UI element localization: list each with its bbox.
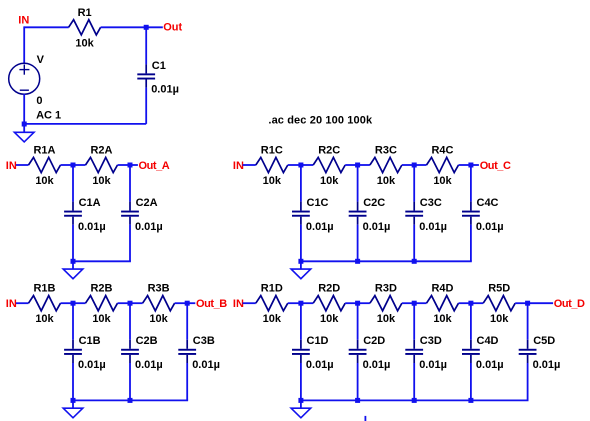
junction	[185, 301, 190, 306]
junction	[412, 398, 417, 403]
wire C1D bottom lead	[300, 363, 302, 400]
wire C4C top lead	[470, 165, 472, 202]
wire C4D bottom lead	[470, 363, 472, 400]
svg-text:AC 1: AC 1	[36, 109, 61, 121]
svg-text:0.01µ: 0.01µ	[78, 221, 106, 233]
svg-text:Out: Out	[163, 22, 182, 34]
wire C2C bottom lead	[357, 225, 359, 261]
svg-text:R4C: R4C	[431, 145, 453, 157]
svg-text:0.01µ: 0.01µ	[135, 359, 163, 371]
wire C1D top lead	[300, 303, 302, 340]
svg-text:R2C: R2C	[318, 145, 340, 157]
wire	[118, 302, 131, 304]
capacitor C2D	[349, 340, 367, 363]
wire C1 top lead	[145, 27, 147, 64]
svg-text:10k: 10k	[490, 313, 509, 325]
svg-text:0.01µ: 0.01µ	[363, 221, 391, 233]
wire	[345, 302, 357, 304]
svg-text:10k: 10k	[433, 175, 452, 187]
wire	[301, 302, 313, 304]
svg-text:10k: 10k	[35, 313, 54, 325]
resistor R2B	[86, 296, 118, 311]
capacitor C1B	[64, 340, 82, 363]
svg-text:0.01µ: 0.01µ	[151, 84, 179, 96]
wire C1B bottom lead	[72, 363, 74, 400]
capacitor C4D	[462, 340, 480, 363]
ground top circuit	[14, 132, 34, 142]
svg-text:V: V	[37, 54, 45, 66]
junction	[355, 398, 360, 403]
wire	[175, 302, 188, 304]
wire	[358, 164, 370, 166]
svg-text:0.01µ: 0.01µ	[533, 359, 561, 371]
resistor R1C	[256, 157, 288, 172]
resistor R2A	[86, 157, 118, 172]
svg-text:R1D: R1D	[261, 283, 283, 295]
wire	[24, 26, 68, 28]
junction node Out	[144, 25, 149, 30]
junction	[298, 163, 303, 168]
capacitor C1A	[64, 202, 82, 225]
svg-text:C1B: C1B	[79, 335, 101, 347]
svg-text:C5D: C5D	[533, 335, 555, 347]
resistor R5D	[483, 296, 515, 311]
junction	[412, 259, 417, 264]
junction	[468, 163, 473, 168]
voltage source V1	[9, 63, 40, 94]
wire bottom rail (top circuit)	[24, 123, 146, 125]
wire C2B top lead	[129, 303, 131, 340]
wire C1A bottom lead	[72, 225, 74, 261]
resistor R1A	[29, 157, 61, 172]
wire	[101, 26, 163, 28]
capacitor C2B	[121, 340, 139, 363]
capacitor C1D	[292, 340, 310, 363]
wire	[402, 302, 414, 304]
svg-text:10k: 10k	[377, 175, 396, 187]
junction	[128, 163, 133, 168]
svg-text:0.01µ: 0.01µ	[419, 221, 447, 233]
junction	[128, 301, 133, 306]
svg-text:IN: IN	[6, 160, 17, 172]
svg-text:0.01µ: 0.01µ	[476, 221, 504, 233]
resistor R2D	[313, 296, 345, 311]
resistor R4D	[427, 296, 459, 311]
wire	[471, 302, 483, 304]
wire C3C top lead	[413, 165, 415, 202]
wire C2D top lead	[357, 303, 359, 340]
wire ground rail	[300, 260, 472, 262]
svg-text:C3D: C3D	[420, 335, 442, 347]
wire	[23, 26, 25, 63]
junction	[525, 301, 530, 306]
capacitor C1	[137, 64, 155, 87]
junction	[468, 398, 473, 403]
wire stub (stray mark)	[364, 416, 366, 421]
svg-text:R1A: R1A	[33, 145, 55, 157]
svg-text:0.01µ: 0.01µ	[78, 359, 106, 371]
svg-text:C2B: C2B	[136, 335, 158, 347]
svg-text:10k: 10k	[75, 37, 94, 49]
wire	[243, 164, 256, 166]
svg-text:10k: 10k	[92, 175, 111, 187]
svg-text:C3C: C3C	[420, 197, 442, 209]
svg-text:IN: IN	[233, 298, 244, 310]
resistor R3C	[370, 157, 402, 172]
svg-text:C1D: C1D	[307, 335, 329, 347]
wire ground stub	[72, 400, 74, 408]
resistor R1	[69, 20, 101, 35]
svg-text:.ac dec 20 100 100k: .ac dec 20 100 100k	[268, 114, 373, 126]
svg-text:R5D: R5D	[488, 283, 510, 295]
svg-text:C2A: C2A	[136, 197, 158, 209]
wire	[414, 164, 426, 166]
wire C3B top lead	[186, 303, 188, 340]
junction	[355, 301, 360, 306]
wire	[16, 302, 29, 304]
wire ground rail	[72, 399, 188, 401]
junction	[128, 398, 133, 403]
wire	[528, 302, 554, 304]
svg-text:10k: 10k	[263, 313, 282, 325]
wire C3D top lead	[413, 303, 415, 340]
junction	[355, 259, 360, 264]
wire	[515, 302, 527, 304]
wire C1A top lead	[72, 165, 74, 202]
wire C1C bottom lead	[300, 225, 302, 261]
wire ground stub	[300, 400, 302, 408]
junction	[71, 301, 76, 306]
junction ground node	[22, 122, 27, 127]
wire C4C bottom lead	[470, 225, 472, 261]
svg-text:0.01µ: 0.01µ	[476, 359, 504, 371]
wire	[459, 302, 471, 304]
svg-text:Out_C: Out_C	[480, 160, 511, 172]
svg-text:0.01µ: 0.01µ	[306, 221, 334, 233]
svg-text:Out_B: Out_B	[196, 298, 227, 310]
junction	[71, 163, 76, 168]
wire C1 bottom lead	[145, 88, 147, 124]
junction	[298, 398, 303, 403]
wire	[61, 302, 74, 304]
wire C1C top lead	[300, 165, 302, 202]
wire ground rail	[300, 399, 529, 401]
wire C3D bottom lead	[413, 363, 415, 400]
svg-text:R2A: R2A	[90, 145, 112, 157]
ground section B	[63, 408, 83, 418]
capacitor C3D	[405, 340, 423, 363]
svg-text:C1: C1	[152, 60, 166, 72]
svg-text:10k: 10k	[320, 313, 339, 325]
svg-text:C1A: C1A	[79, 197, 101, 209]
capacitor C2A	[121, 202, 139, 225]
wire ground stub	[300, 261, 302, 269]
wire	[288, 302, 301, 304]
svg-text:10k: 10k	[35, 175, 54, 187]
svg-text:C1C: C1C	[307, 197, 329, 209]
ground section C	[291, 269, 311, 279]
junction	[298, 301, 303, 306]
wire C3B bottom lead	[186, 363, 188, 400]
svg-text:Out_A: Out_A	[139, 160, 170, 172]
wire ground rail	[72, 260, 131, 262]
wire	[301, 164, 313, 166]
svg-text:C2D: C2D	[363, 335, 385, 347]
wire C2B bottom lead	[129, 363, 131, 400]
svg-text:IN: IN	[18, 15, 29, 27]
wire	[414, 302, 426, 304]
wire	[187, 302, 195, 304]
svg-text:0: 0	[36, 95, 42, 107]
resistor R1D	[256, 296, 288, 311]
wire	[243, 302, 256, 304]
resistor R4C	[427, 157, 459, 172]
capacitor C2C	[349, 202, 367, 225]
capacitor C5D	[519, 340, 537, 363]
junction	[468, 301, 473, 306]
svg-text:0.01µ: 0.01µ	[419, 359, 447, 371]
svg-text:C4D: C4D	[477, 335, 499, 347]
junction	[71, 259, 76, 264]
wire	[459, 164, 471, 166]
svg-text:IN: IN	[233, 160, 244, 172]
wire	[73, 302, 86, 304]
junction	[412, 163, 417, 168]
wire	[402, 164, 414, 166]
wire	[358, 302, 370, 304]
svg-text:R1C: R1C	[261, 145, 283, 157]
capacitor C3B	[178, 340, 196, 363]
wire	[73, 164, 86, 166]
wire C2C top lead	[357, 165, 359, 202]
svg-text:10k: 10k	[149, 313, 168, 325]
svg-text:C4C: C4C	[477, 197, 499, 209]
svg-text:IN: IN	[6, 298, 17, 310]
junction	[355, 163, 360, 168]
svg-text:0.01µ: 0.01µ	[192, 359, 220, 371]
wire ground stub	[23, 126, 25, 132]
svg-text:Out_D: Out_D	[554, 298, 585, 310]
ground section A	[63, 269, 83, 279]
wire C1B top lead	[72, 303, 74, 340]
svg-text:C3B: C3B	[193, 335, 215, 347]
svg-text:R4D: R4D	[431, 283, 453, 295]
wire	[118, 164, 131, 166]
wire	[288, 164, 301, 166]
svg-text:C2C: C2C	[363, 197, 385, 209]
wire C2A bottom lead	[129, 225, 131, 261]
resistor R1B	[29, 296, 61, 311]
wire C3C bottom lead	[413, 225, 415, 261]
resistor R3B	[143, 296, 175, 311]
resistor R2C	[313, 157, 345, 172]
junction	[298, 259, 303, 264]
capacitor C4C	[462, 202, 480, 225]
svg-text:0.01µ: 0.01µ	[306, 359, 334, 371]
svg-text:R3D: R3D	[375, 283, 397, 295]
wire	[23, 94, 25, 124]
wire C5D bottom lead	[527, 363, 529, 400]
svg-text:R1B: R1B	[33, 283, 55, 295]
junction	[71, 398, 76, 403]
wire	[16, 164, 29, 166]
svg-text:R3C: R3C	[375, 145, 397, 157]
wire	[471, 164, 479, 166]
wire ground stub	[72, 261, 74, 269]
resistor R3D	[370, 296, 402, 311]
wire C2D bottom lead	[357, 363, 359, 400]
svg-text:R2B: R2B	[90, 283, 112, 295]
capacitor C3C	[405, 202, 423, 225]
svg-text:0.01µ: 0.01µ	[135, 221, 163, 233]
junction	[412, 301, 417, 306]
wire	[130, 164, 138, 166]
capacitor C1C	[292, 202, 310, 225]
svg-text:10k: 10k	[433, 313, 452, 325]
svg-text:R3B: R3B	[148, 283, 170, 295]
svg-text:0.01µ: 0.01µ	[363, 359, 391, 371]
svg-text:10k: 10k	[320, 175, 339, 187]
wire	[61, 164, 74, 166]
svg-text:R1: R1	[78, 7, 92, 19]
ground section D	[291, 408, 311, 418]
wire	[130, 302, 143, 304]
svg-text:10k: 10k	[263, 175, 282, 187]
svg-text:10k: 10k	[92, 313, 111, 325]
wire	[345, 164, 357, 166]
wire C5D top lead	[527, 303, 529, 340]
wire C2A top lead	[129, 165, 131, 202]
svg-text:R2D: R2D	[318, 283, 340, 295]
svg-text:10k: 10k	[377, 313, 396, 325]
wire C4D top lead	[470, 303, 472, 340]
